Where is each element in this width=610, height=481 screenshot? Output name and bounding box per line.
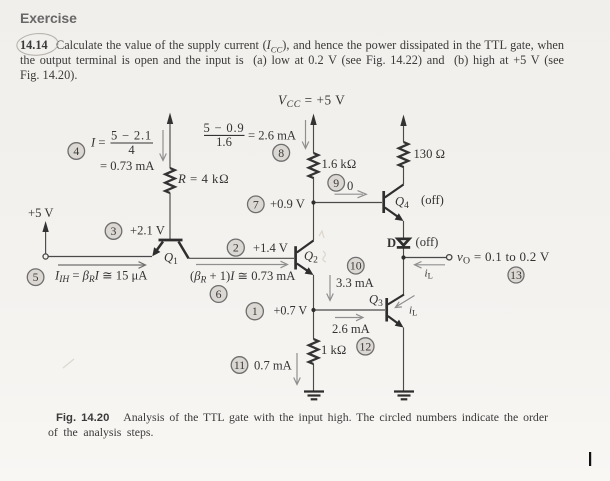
svg-text:= 0.73 mA: = 0.73 mA [100,159,154,173]
svg-text:10: 10 [350,259,362,273]
svg-text:R = 4 kΩ: R = 4 kΩ [177,172,229,186]
svg-text:(off): (off) [416,235,439,249]
svg-text:I =: I = [90,136,105,150]
svg-text:9: 9 [333,176,339,190]
svg-text:5: 5 [33,270,39,284]
svg-text:6: 6 [216,287,222,301]
svg-text:= 2.6 mA: = 2.6 mA [248,129,296,143]
svg-text:(off): (off) [421,193,444,207]
svg-text:+5 V: +5 V [28,206,53,220]
svg-text:1.6: 1.6 [216,135,232,149]
svg-text:iL: iL [409,304,417,317]
svg-text:13: 13 [510,268,522,282]
svg-text:8: 8 [278,146,284,160]
svg-text:2: 2 [233,241,239,255]
svg-text:+0.9 V: +0.9 V [270,197,305,211]
svg-text:iL: iL [425,267,433,280]
svg-text:5 − 0.9: 5 − 0.9 [203,121,244,135]
svg-text:3: 3 [111,224,117,238]
svg-text:4: 4 [128,143,135,157]
svg-text:0.7 mA: 0.7 mA [254,359,292,373]
svg-text:2.6 mA: 2.6 mA [332,322,370,336]
svg-text:0: 0 [347,179,353,193]
svg-text:Q3: Q3 [369,293,383,310]
svg-text:Q2: Q2 [304,249,318,266]
svg-text:Q1: Q1 [164,250,178,267]
svg-text:(βR + 1)I ≅ 0.73 mA: (βR + 1)I ≅ 0.73 mA [190,269,295,286]
svg-text:Q4: Q4 [395,195,409,212]
svg-text:VCC = +5 V: VCC = +5 V [278,93,345,111]
svg-text:11: 11 [234,358,245,372]
svg-text:4: 4 [73,144,79,158]
svg-text:IIH = βRI ≅ 15 μA: IIH = βRI ≅ 15 μA [54,269,147,286]
svg-text:1.6 kΩ: 1.6 kΩ [322,157,357,171]
svg-text:3.3 mA: 3.3 mA [336,276,374,290]
svg-text:7: 7 [253,197,259,211]
svg-text:5 − 2.1: 5 − 2.1 [111,128,152,142]
svg-text:130 Ω: 130 Ω [414,147,446,161]
svg-text:vO = 0.1 to 0.2 V: vO = 0.1 to 0.2 V [457,249,550,267]
svg-text:1: 1 [252,304,258,318]
svg-text:D: D [387,236,396,250]
svg-text:+1.4 V: +1.4 V [253,241,288,255]
svg-text:1 kΩ: 1 kΩ [321,343,346,357]
svg-text:+2.1 V: +2.1 V [130,224,165,238]
svg-text:12: 12 [360,339,372,353]
svg-text:+0.7 V: +0.7 V [274,303,308,317]
